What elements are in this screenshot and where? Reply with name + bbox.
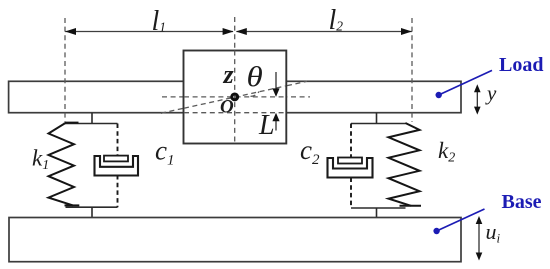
svg-text:y: y [485, 81, 497, 105]
svg-text:z: z [223, 60, 235, 89]
svg-text:L: L [258, 110, 275, 141]
svg-text:Base: Base [502, 191, 542, 213]
svg-text:θ: θ [247, 61, 263, 92]
svg-text:Load: Load [499, 54, 543, 76]
svg-text:O: O [220, 97, 234, 118]
